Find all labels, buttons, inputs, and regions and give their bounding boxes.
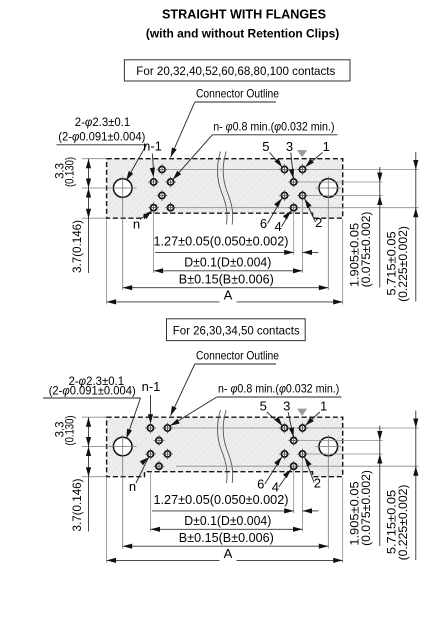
leader n-1 to contact bbox=[150, 395, 152, 415]
dimension line 1.27 bbox=[155, 251, 294, 253]
svg-text:(0.130): (0.130) bbox=[62, 416, 76, 446]
svg-text:3: 3 bbox=[286, 139, 293, 154]
break line right bbox=[223, 152, 233, 225]
svg-text:n-1: n-1 bbox=[143, 139, 162, 154]
extension line top pin row bbox=[168, 427, 419, 429]
leader n to contact bbox=[140, 211, 152, 220]
leader n-1 to contact bbox=[152, 154, 153, 172]
extension line row3 bbox=[308, 195, 383, 197]
extension line top pin row bbox=[168, 169, 419, 171]
connector body fill bbox=[107, 417, 343, 477]
svg-text:(with and without Retention Cl: (with and without Retention Clips) bbox=[146, 27, 339, 41]
extension line row2 bbox=[299, 181, 382, 183]
contact (left group) bbox=[165, 177, 176, 188]
left flange hole bbox=[113, 437, 132, 456]
left flange hole centerlines bbox=[82, 446, 137, 448]
svg-text:2: 2 bbox=[315, 215, 322, 230]
extension line bottom pin row bbox=[176, 465, 419, 467]
figure 2: straight with flanges, 26,30,34,50 contacts bbox=[43, 349, 419, 564]
extension line flange bottom left bbox=[82, 217, 107, 219]
leader 2-φ2.3 underline and arrow to flange hole bbox=[57, 144, 147, 146]
break line left bbox=[217, 152, 227, 225]
connector body fill bbox=[107, 159, 343, 219]
extension line outline right corner bbox=[342, 219, 344, 304]
svg-text:For 20,32,40,52,60,68,80,100 c: For 20,32,40,52,60,68,80,100 contacts bbox=[136, 64, 335, 78]
svg-text:STRAIGHT WITH FLANGES: STRAIGHT WITH FLANGES bbox=[162, 8, 326, 22]
dimension line B bbox=[123, 545, 329, 547]
contact (left group) bbox=[162, 423, 173, 434]
extension line outline left corner bbox=[106, 478, 108, 563]
svg-text:3: 3 bbox=[283, 399, 290, 414]
contact n (left group) bbox=[145, 449, 156, 460]
extension line pin col B right bbox=[293, 213, 295, 255]
svg-text:n: n bbox=[133, 217, 140, 232]
svg-text:For 26,30,34,50 contacts: For 26,30,34,50 contacts bbox=[173, 323, 300, 337]
extension line outline left corner bbox=[106, 219, 108, 304]
leader 4 bbox=[282, 211, 292, 227]
svg-text:D±0.1(D±0.004): D±0.1(D±0.004) bbox=[184, 513, 271, 528]
extension line row3 bbox=[308, 453, 383, 455]
dimension line D bbox=[154, 270, 303, 272]
break line left bbox=[217, 410, 227, 483]
index mark (triangle) bbox=[297, 150, 307, 157]
break line right bbox=[223, 410, 233, 483]
svg-text:4: 4 bbox=[272, 480, 279, 495]
extension line pin col C right bbox=[302, 201, 304, 273]
connector outline (dashed) bbox=[107, 417, 343, 477]
leader 1 bbox=[305, 412, 320, 426]
extension line outline right corner bbox=[342, 478, 344, 563]
svg-text:A: A bbox=[224, 288, 233, 303]
dimension line A bbox=[107, 301, 220, 303]
extension line flange bottom left bbox=[82, 476, 107, 478]
extension line bottom pin row bbox=[176, 207, 419, 209]
dimension line A bbox=[107, 559, 220, 561]
contact (left group) bbox=[157, 164, 168, 175]
dimension line D bbox=[151, 528, 303, 530]
contact n (left group) bbox=[148, 202, 159, 213]
leader 3 bbox=[288, 412, 293, 437]
leader 3 bbox=[291, 153, 294, 179]
svg-text:(0.130): (0.130) bbox=[62, 157, 76, 187]
leader 4 bbox=[279, 469, 291, 487]
contact 1 (right group) bbox=[297, 164, 308, 175]
dimension line 1.905 bbox=[379, 167, 381, 288]
dimension line 3.3/3.7 bbox=[88, 159, 90, 273]
dimension line 5.715 bbox=[415, 152, 417, 302]
contact 6 (right group) bbox=[279, 449, 290, 460]
extension line pin col C right bbox=[302, 460, 304, 532]
contact 4 (right group) bbox=[288, 202, 299, 213]
dimension line 1.27 bbox=[152, 510, 294, 512]
leader 1 bbox=[305, 153, 322, 168]
extension line pin col B right bbox=[293, 472, 295, 514]
contact 1 (right group) bbox=[297, 423, 308, 434]
svg-text:2-φ2.3±0.1: 2-φ2.3±0.1 bbox=[75, 115, 131, 129]
leader n-φ0.8 underline and arrow to contact bbox=[212, 134, 337, 136]
svg-text:n: n bbox=[129, 479, 136, 494]
leader 2-φ2.3 underline and arrow to flange hole bbox=[43, 397, 141, 399]
svg-text:5: 5 bbox=[262, 139, 269, 154]
contact (left group) bbox=[162, 449, 173, 460]
svg-text:6: 6 bbox=[260, 216, 267, 231]
svg-text:(0.225±0.002): (0.225±0.002) bbox=[396, 226, 410, 302]
contact (left group) bbox=[157, 190, 168, 201]
extension line pin col left bbox=[153, 213, 155, 273]
contact 2 (right group) bbox=[297, 190, 308, 201]
contact 2 (right group) bbox=[297, 449, 308, 460]
dimension line B bbox=[123, 287, 329, 289]
svg-text:Connector Outline: Connector Outline bbox=[196, 87, 279, 101]
svg-text:n- φ0.8 min.(φ0.032 min.): n- φ0.8 min.(φ0.032 min.) bbox=[213, 120, 334, 134]
right flange hole bbox=[319, 437, 338, 456]
left flange hole centerlines bbox=[82, 187, 137, 189]
contact n-1 (left group) bbox=[145, 423, 156, 434]
svg-text:D±0.1(D±0.004): D±0.1(D±0.004) bbox=[184, 254, 271, 269]
figure 1: straight with flanges, 20..100 contacts bbox=[53, 87, 419, 305]
leader 5 bbox=[267, 412, 283, 426]
contact 6 (right group) bbox=[279, 190, 290, 201]
right flange hole bbox=[319, 179, 338, 198]
svg-text:4: 4 bbox=[274, 219, 281, 234]
extension line outline top left bbox=[82, 416, 107, 418]
contact n-1 (left group) bbox=[148, 177, 159, 188]
leader Connector Outline bbox=[195, 101, 276, 103]
svg-text:1.27±0.05(0.050±0.002): 1.27±0.05(0.050±0.002) bbox=[154, 492, 289, 507]
svg-text:1: 1 bbox=[320, 399, 327, 414]
svg-text:(0.075±0.002): (0.075±0.002) bbox=[359, 470, 373, 546]
svg-text:n-1: n-1 bbox=[142, 379, 161, 394]
leader n to contact bbox=[136, 457, 149, 483]
right flange hole centerlines bbox=[316, 187, 342, 189]
svg-text:B±0.15(B±0.006): B±0.15(B±0.006) bbox=[179, 271, 274, 286]
contact (left group) bbox=[154, 461, 165, 472]
svg-text:3.7(0.146): 3.7(0.146) bbox=[70, 220, 84, 273]
svg-text:(0.075±0.002): (0.075±0.002) bbox=[359, 212, 373, 288]
extension line row2 bbox=[299, 440, 382, 442]
svg-text:1: 1 bbox=[323, 139, 330, 154]
contact 3 (right group) bbox=[288, 177, 299, 188]
contact 4 (right group) bbox=[288, 461, 299, 472]
svg-text:(2-φ0.091±0.004): (2-φ0.091±0.004) bbox=[49, 384, 136, 398]
contact 5 (right group) bbox=[279, 423, 290, 434]
contact 3 (right group) bbox=[288, 435, 299, 446]
leader 2 bbox=[305, 199, 316, 222]
extension line pin col left bbox=[150, 472, 152, 532]
connector outline (dashed) bbox=[107, 159, 343, 219]
dimension line 5.715 bbox=[415, 411, 417, 561]
contact (left group) bbox=[165, 202, 176, 213]
svg-text:5: 5 bbox=[260, 399, 267, 414]
svg-text:Connector Outline: Connector Outline bbox=[196, 349, 279, 363]
svg-text:3.7(0.146): 3.7(0.146) bbox=[70, 478, 84, 531]
svg-text:6: 6 bbox=[257, 477, 264, 492]
leader 2 bbox=[305, 457, 315, 482]
contact 5 (right group) bbox=[279, 164, 290, 175]
leader Connector Outline bbox=[195, 363, 276, 365]
dimension line 3.3/3.7 bbox=[88, 417, 90, 531]
svg-text:1.27±0.05(0.050±0.002): 1.27±0.05(0.050±0.002) bbox=[154, 234, 289, 249]
svg-text:B±0.15(B±0.006): B±0.15(B±0.006) bbox=[179, 530, 274, 545]
header box figure 1 bbox=[124, 60, 350, 81]
contact (left group) bbox=[154, 435, 165, 446]
dimension line 1.905 bbox=[379, 426, 381, 547]
svg-text:n- φ0.8 min.(φ0.032 min.): n- φ0.8 min.(φ0.032 min.) bbox=[218, 381, 339, 395]
leader 5 bbox=[270, 153, 283, 168]
leader 6 bbox=[268, 198, 283, 223]
svg-text:A: A bbox=[224, 546, 233, 561]
leader 6 bbox=[265, 457, 282, 484]
left flange hole bbox=[113, 179, 132, 198]
header box figure 2 bbox=[167, 319, 306, 341]
index mark (triangle) bbox=[297, 409, 307, 416]
svg-text:(0.225±0.002): (0.225±0.002) bbox=[396, 485, 410, 561]
extension line outline top left bbox=[82, 158, 107, 160]
right flange hole centerlines bbox=[316, 446, 342, 448]
svg-text:(2-φ0.091±0.004): (2-φ0.091±0.004) bbox=[58, 130, 145, 144]
leader n-φ0.8 underline and arrow to contact bbox=[217, 396, 342, 398]
svg-text:2: 2 bbox=[314, 476, 321, 491]
